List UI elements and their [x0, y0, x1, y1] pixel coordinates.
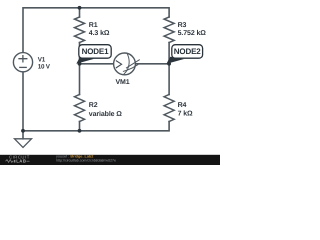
resistor R1 [75, 17, 85, 43]
resistor R2 [75, 95, 85, 122]
wire R1 top stem [79, 8, 81, 17]
svg-text:VM1: VM1 [115, 79, 129, 86]
junction dot ground [21, 129, 25, 133]
wire voltmeter to NODE2 [135, 63, 169, 65]
voltmeter lower arc [123, 65, 137, 72]
svg-text:LAB: LAB [16, 159, 26, 164]
wire NODE1 to R2 [79, 64, 81, 95]
wire R4 to bottom rail [23, 122, 169, 131]
resistor R3 [164, 17, 174, 43]
voltmeter needle [126, 60, 139, 68]
svg-text:variable Ω: variable Ω [89, 110, 123, 118]
junction dot NODE2 [167, 62, 171, 66]
svg-text:R3: R3 [178, 22, 187, 29]
NODE2 flag tail [166, 57, 184, 64]
wire top rail with left and right corners [23, 8, 169, 53]
ground triangle [15, 139, 32, 148]
svg-text:NODE1: NODE1 [82, 47, 110, 56]
NODE1 flag tail [76, 57, 94, 64]
voltmeter rotated V glyph [116, 61, 121, 68]
svg-text:NODE2: NODE2 [174, 47, 202, 56]
watermark bar [0, 155, 220, 165]
svg-text:R2: R2 [89, 102, 98, 109]
wire R1 bottom to NODE1 [79, 43, 81, 64]
svg-text:5.752 kΩ: 5.752 kΩ [178, 29, 207, 37]
svg-text:R4: R4 [178, 102, 187, 109]
wire R2 to bottom rail [79, 122, 81, 131]
NODE2 flag box [172, 45, 203, 59]
junction dot R2 bottom [78, 129, 82, 133]
svg-text:R1: R1 [89, 22, 98, 29]
svg-text:4.3 kΩ: 4.3 kΩ [89, 29, 110, 37]
watermark logo LAB [6, 160, 14, 163]
svg-text:http://circuitlab.com/c/cnb8da: http://circuitlab.com/c/cnb8da8mv027e [56, 158, 116, 162]
svg-text:V1: V1 [38, 56, 46, 63]
voltmeter VM1 circle [114, 53, 136, 75]
wire R3 bottom to NODE2 [168, 43, 170, 64]
wire V1 bottom to bottom rail [22, 72, 24, 131]
wire NODE1 to voltmeter [80, 63, 114, 65]
junction dot top R1 [78, 6, 82, 10]
V1 minus sign [20, 66, 26, 68]
voltage source V1 circle [13, 53, 32, 72]
wire NODE2 to R4 [168, 64, 170, 95]
svg-text:7 kΩ: 7 kΩ [178, 109, 193, 117]
ground stem [22, 131, 24, 139]
NODE1 flag box [79, 45, 111, 59]
voltmeter meridian arc [124, 54, 129, 74]
resistor R4 [164, 95, 174, 122]
V1 plus sign [19, 56, 27, 62]
junction dot NODE1 [78, 62, 82, 66]
svg-text:10 V: 10 V [38, 63, 51, 70]
